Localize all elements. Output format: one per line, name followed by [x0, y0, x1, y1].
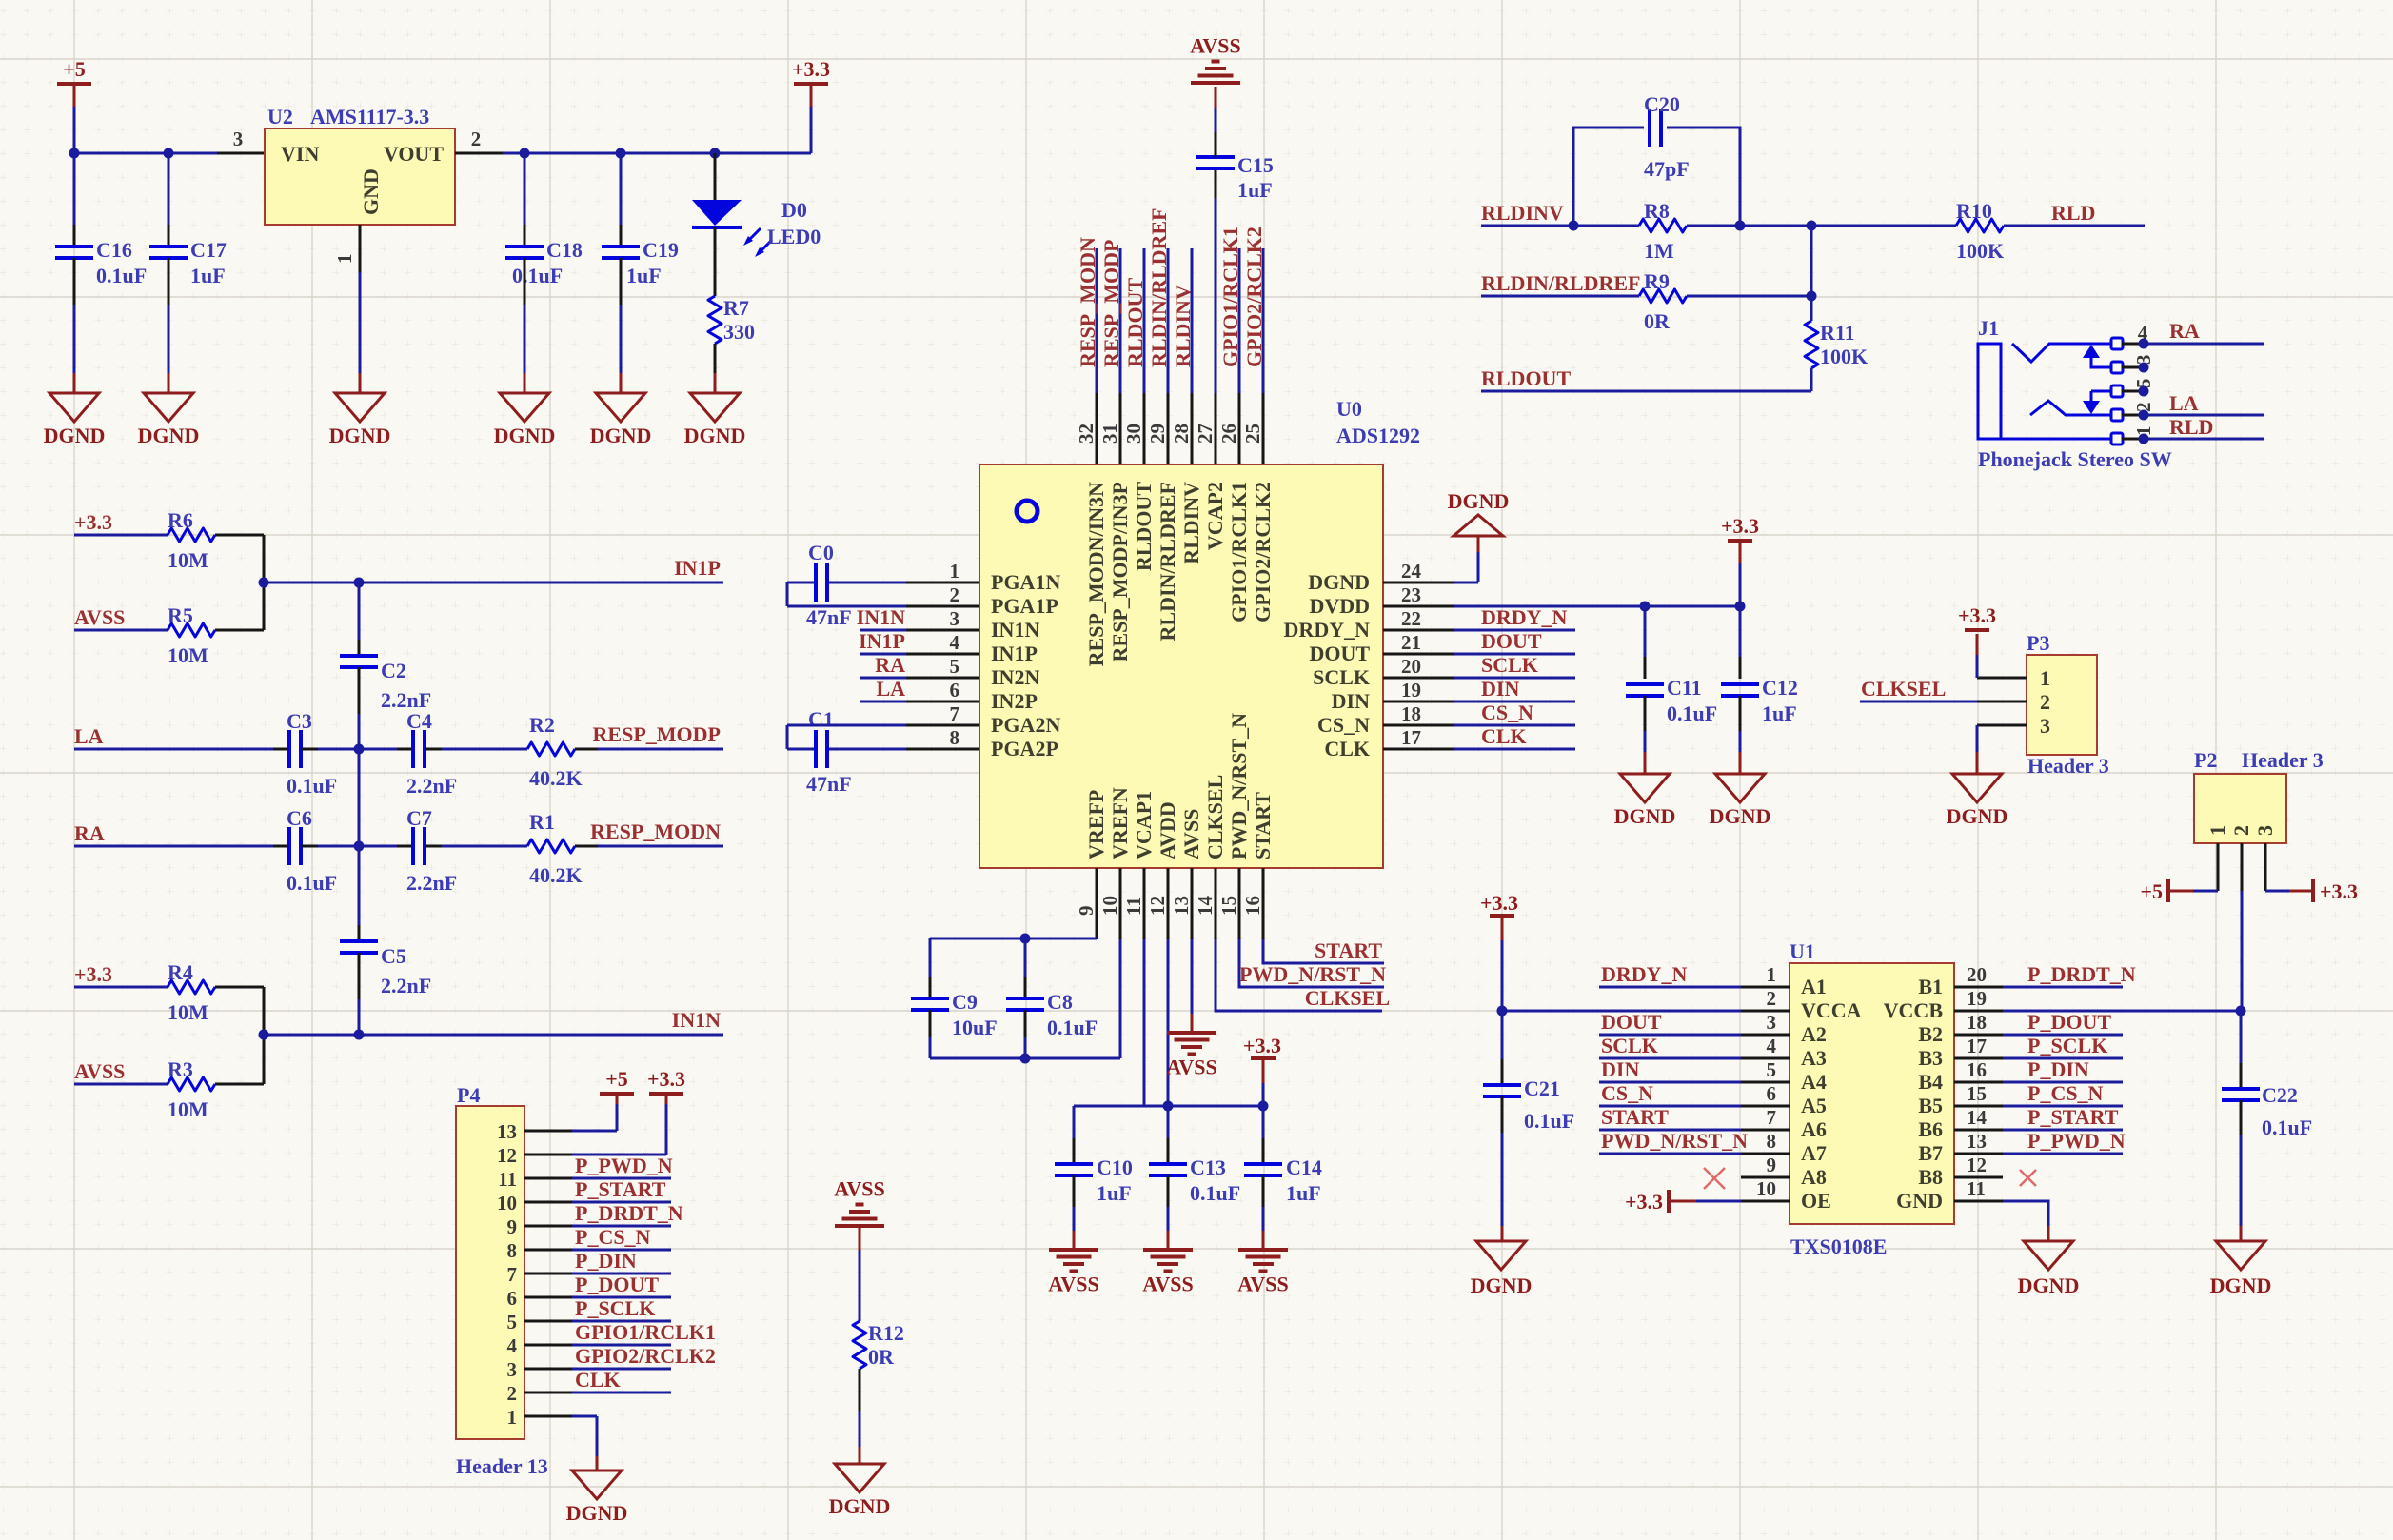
pin U0.9 VREFP [1096, 868, 1098, 939]
pin C4 [397, 748, 413, 751]
wire [1263, 939, 1384, 963]
wire [929, 938, 932, 977]
wire [714, 373, 717, 393]
svg-text:10: 10 [1098, 896, 1121, 916]
wire [1810, 368, 1813, 391]
junction [354, 841, 365, 852]
svg-text:DGND: DGND [590, 424, 652, 447]
resistor R10 100K [1956, 219, 2004, 232]
wire [810, 107, 813, 153]
svg-text:0.1uF: 0.1uF [1190, 1181, 1240, 1205]
pin R5 [215, 629, 264, 632]
svg-text:1: 1 [507, 1406, 518, 1429]
svg-text:+3.3: +3.3 [1480, 891, 1518, 915]
pin U1.6 A5 [1741, 1105, 1790, 1108]
pin P4.6 [524, 1296, 572, 1299]
ground DGND [335, 393, 385, 422]
svg-text:C11: C11 [1667, 676, 1702, 700]
svg-text:RLDOUT: RLDOUT [1132, 482, 1156, 571]
pin C11 [1644, 657, 1647, 679]
junction [1163, 1101, 1174, 1112]
wire [572, 1273, 671, 1275]
capacitor C5 2.2nF [340, 939, 378, 943]
svg-text:IN2N: IN2N [991, 665, 1039, 689]
connector P3 Header 3 [2027, 655, 2097, 755]
pin C21 [1501, 1059, 1504, 1085]
svg-text:100K: 100K [1820, 345, 1868, 368]
svg-text:DGND: DGND [1471, 1273, 1533, 1297]
junction [1020, 934, 1031, 944]
wire [168, 153, 170, 225]
junction [1735, 221, 1746, 231]
svg-text:11: 11 [1967, 1177, 1986, 1200]
pin J1 [2122, 414, 2144, 417]
pin U1.1 A1 [1741, 986, 1790, 989]
pin U0.8 PGA2P [906, 748, 979, 751]
svg-text:40.2K: 40.2K [529, 863, 583, 887]
svg-text:RESP_MODN/IN3N: RESP_MODN/IN3N [1084, 482, 1108, 666]
svg-text:1: 1 [2205, 825, 2229, 836]
capacitor C6 0.1uF [287, 827, 291, 865]
svg-text:RESP_MODN: RESP_MODN [590, 819, 721, 843]
resistor R12 0R [853, 1321, 866, 1369]
wire [2144, 414, 2264, 417]
pin R3 [215, 1083, 264, 1086]
svg-text:12: 12 [1146, 896, 1169, 916]
svg-text:+3.3: +3.3 [74, 962, 112, 986]
svg-text:11: 11 [1122, 897, 1145, 916]
pin C9 [929, 1010, 932, 1037]
capacitor C22 0.1uF [2222, 1087, 2260, 1091]
pin C4 [425, 748, 442, 751]
svg-text:TXS0108E: TXS0108E [1790, 1234, 1887, 1258]
svg-text:6: 6 [950, 679, 960, 701]
pin D0 [714, 227, 717, 296]
resistor R6 10M [168, 528, 215, 542]
pin U1.10 OE [1741, 1200, 1790, 1203]
svg-text:AVSS: AVSS [1142, 1273, 1193, 1296]
connector P2 Header 3 [2194, 774, 2286, 843]
pin C16 [73, 258, 76, 305]
pin U0.3 IN1N [906, 629, 979, 632]
power +5 [2166, 879, 2170, 902]
svg-text:0.1uF: 0.1uF [287, 774, 337, 798]
wire [1454, 748, 1575, 751]
svg-text:B5: B5 [1918, 1094, 1943, 1117]
resistor R11 100K [1805, 321, 1818, 368]
wire [1976, 655, 1979, 678]
svg-text:START: START [1601, 1105, 1669, 1129]
svg-text:P_PWD_N: P_PWD_N [575, 1154, 673, 1177]
regulator U2 AMS1117-3.3 [265, 128, 455, 225]
svg-text:RESP_MODP: RESP_MODP [593, 722, 721, 746]
svg-text:C16: C16 [96, 238, 132, 262]
svg-text:SCLK: SCLK [1481, 653, 1538, 677]
pin C21 [1501, 1096, 1504, 1133]
wire [1143, 248, 1146, 393]
pin C10 [1073, 1138, 1076, 1164]
wire [829, 582, 906, 584]
svg-text:GPIO2/RCLK2: GPIO2/RCLK2 [1242, 227, 1266, 367]
svg-text:3: 3 [1767, 1011, 1777, 1034]
svg-text:AVSS: AVSS [834, 1177, 884, 1201]
svg-text:P_DRDT_N: P_DRDT_N [2027, 962, 2136, 986]
svg-text:C8: C8 [1047, 990, 1073, 1014]
pin U0.10 VREFN [1119, 868, 1122, 939]
svg-text:U0: U0 [1336, 397, 1362, 421]
ground DGND [1715, 774, 1765, 802]
capacitor C18 0.1uF [505, 245, 544, 248]
svg-text:+3.3: +3.3 [2320, 879, 2358, 903]
svg-text:2: 2 [950, 583, 960, 606]
svg-text:0.1uF: 0.1uF [512, 264, 563, 287]
svg-text:IN1N: IN1N [672, 1008, 721, 1032]
svg-text:330: 330 [723, 320, 755, 344]
svg-text:RLDOUT: RLDOUT [1481, 366, 1571, 390]
ground DGND [596, 393, 645, 422]
svg-text:CLKSEL: CLKSEL [1305, 986, 1390, 1010]
junction [1258, 1101, 1269, 1112]
ground DGND [1454, 515, 1503, 536]
svg-text:A6: A6 [1801, 1117, 1827, 1141]
wire [620, 305, 623, 373]
wire [1644, 606, 1647, 657]
pin U1.2 VCCA [1741, 1010, 1790, 1013]
svg-text:7: 7 [507, 1263, 518, 1286]
svg-text:11: 11 [498, 1168, 517, 1191]
resistor R8 1M [1639, 219, 1687, 232]
svg-text:40.2K: 40.2K [529, 766, 583, 790]
svg-text:P_DIN: P_DIN [575, 1249, 637, 1273]
svg-text:VCAP2: VCAP2 [1203, 482, 1227, 550]
pin C2 [358, 640, 361, 656]
pin U1.12 B8 [1954, 1176, 2003, 1179]
svg-text:14: 14 [1967, 1106, 1988, 1129]
svg-text:LA: LA [74, 724, 104, 748]
pin U0.17 CLK [1383, 748, 1454, 751]
wire [74, 629, 168, 632]
ground DGND [1476, 1241, 1526, 1270]
wire [859, 1250, 861, 1321]
svg-text:25: 25 [1241, 424, 1264, 444]
wire [358, 846, 361, 925]
wire [859, 1369, 861, 1411]
svg-text:1uF: 1uF [1762, 701, 1797, 725]
svg-text:OE: OE [1801, 1189, 1831, 1213]
svg-text:DIN: DIN [1332, 689, 1370, 713]
svg-text:1uF: 1uF [1237, 178, 1273, 202]
ground AVSS [1049, 1248, 1098, 1252]
IC U0 ADS1292 [979, 464, 1383, 868]
wire [1502, 1010, 1741, 1013]
power +5 [57, 82, 91, 86]
wire [263, 987, 266, 1035]
wire [524, 305, 526, 373]
svg-text:P_SCLK: P_SCLK [2027, 1034, 2107, 1057]
pin C8 [1024, 977, 1027, 998]
svg-text:DIN: DIN [1481, 677, 1519, 701]
pin U0.19 DIN [1383, 701, 1454, 703]
svg-text:2.2nF: 2.2nF [406, 871, 457, 895]
svg-text:+3.3: +3.3 [792, 57, 830, 81]
svg-text:1: 1 [2040, 666, 2050, 690]
wire [74, 534, 168, 537]
svg-text:PGA2P: PGA2P [991, 737, 1058, 760]
wire [930, 1057, 1120, 1060]
wire [1696, 1200, 1741, 1203]
svg-text:VIN: VIN [281, 142, 319, 166]
ground DGND [572, 1471, 622, 1499]
svg-text:B8: B8 [1918, 1165, 1943, 1189]
wire [358, 582, 361, 640]
pin U2.3 [217, 152, 265, 155]
pin U0.18 CS_N [1383, 724, 1454, 727]
svg-text:R10: R10 [1956, 199, 1992, 223]
svg-text:+3.3: +3.3 [1721, 514, 1759, 538]
power +5 [600, 1092, 634, 1096]
svg-text:PGA1N: PGA1N [991, 570, 1060, 594]
svg-text:2.2nF: 2.2nF [406, 774, 457, 798]
svg-text:1: 1 [950, 560, 960, 582]
ground DGND [2024, 1241, 2073, 1270]
power +3.3 [1965, 628, 1989, 632]
svg-text:DGND: DGND [2018, 1273, 2080, 1297]
svg-text:PWD_N/RST_N: PWD_N/RST_N [1227, 713, 1251, 859]
wire [1481, 390, 1811, 393]
pin C15 [1215, 168, 1217, 198]
pin U0.13 AVSS [1191, 868, 1194, 939]
pin R1 [575, 845, 598, 848]
pin U0.23 DVDD [1383, 605, 1454, 608]
pin U1.20 B1 [1954, 986, 2003, 989]
connector P4 Header 13 [456, 1106, 524, 1439]
power +3.3 [794, 82, 828, 86]
junction [354, 744, 365, 755]
wire [1860, 701, 1977, 703]
svg-text:DIN: DIN [1601, 1057, 1639, 1081]
pin C2 [358, 667, 361, 714]
pin C18 [524, 225, 526, 247]
pin U0.7 PGA2N [906, 724, 979, 727]
svg-text:5: 5 [1767, 1058, 1777, 1081]
svg-text:PGA1P: PGA1P [991, 594, 1058, 618]
resistor R3 10M [168, 1077, 215, 1091]
svg-text:3: 3 [2040, 714, 2050, 738]
svg-text:IN1N: IN1N [991, 618, 1039, 642]
svg-text:DGND: DGND [1308, 570, 1370, 594]
pin U1.9 A8 [1741, 1176, 1790, 1179]
wire [1239, 939, 1384, 987]
svg-text:P_START: P_START [2027, 1105, 2119, 1129]
svg-text:D0: D0 [781, 198, 807, 222]
resistor R5 10M [168, 623, 215, 637]
svg-text:+3.3: +3.3 [1958, 603, 1996, 627]
svg-text:A7: A7 [1801, 1141, 1827, 1165]
svg-text:GND: GND [1896, 1189, 1943, 1213]
svg-text:+5: +5 [605, 1067, 628, 1091]
svg-text:CLK: CLK [1324, 737, 1370, 760]
svg-text:DGND: DGND [1710, 804, 1771, 828]
svg-text:10M: 10M [168, 1097, 208, 1121]
wire [1599, 1105, 1741, 1108]
wire [2003, 1034, 2123, 1037]
svg-text:A3: A3 [1801, 1046, 1827, 1070]
capacitor C2 2.2nF [340, 654, 378, 658]
capacitor C12 1uF [1721, 682, 1759, 686]
svg-text:15: 15 [1217, 896, 1240, 916]
wire [860, 701, 906, 703]
pin C7 [425, 845, 442, 848]
svg-text:AVSS: AVSS [74, 1059, 125, 1083]
svg-text:RLDIN/RLDREF: RLDIN/RLDREF [1147, 208, 1171, 367]
resistor R9 0R [1639, 289, 1687, 303]
power +3.3 [1251, 1056, 1276, 1060]
svg-text:+3.3: +3.3 [1625, 1190, 1663, 1214]
svg-text:GPIO2/RCLK2: GPIO2/RCLK2 [1251, 482, 1275, 622]
wire [714, 153, 717, 200]
svg-text:19: 19 [1967, 987, 1987, 1010]
pin U0.14 CLKSEL [1215, 868, 1217, 939]
wire [263, 1035, 266, 1084]
svg-text:J1: J1 [1978, 316, 1999, 340]
pin C5 [358, 925, 361, 941]
svg-text:10: 10 [1756, 1177, 1776, 1200]
junction [2139, 434, 2149, 444]
svg-text:RLDINV: RLDINV [1179, 482, 1203, 564]
pin U1.11 GND [1954, 1200, 2003, 1203]
svg-text:+5: +5 [2140, 879, 2163, 903]
wire [1191, 939, 1194, 1014]
svg-text:DGND: DGND [684, 424, 746, 447]
pin U1.17 B3 [1954, 1057, 2003, 1060]
wire [1687, 225, 1811, 227]
svg-text:SCLK: SCLK [1601, 1034, 1658, 1057]
capacitor C19 1uF [602, 245, 640, 248]
pin P4.3 [524, 1368, 572, 1371]
wire [2003, 1105, 2123, 1108]
pin P4.1 [524, 1415, 572, 1418]
wire [572, 1249, 671, 1252]
svg-text:R8: R8 [1644, 199, 1670, 223]
pin P2.1 [2217, 843, 2220, 891]
IC U1 TXS0108E [1790, 963, 1954, 1224]
svg-text:4: 4 [507, 1334, 518, 1357]
wire [74, 845, 273, 848]
wire [2193, 890, 2218, 893]
svg-text:START: START [1315, 938, 1382, 962]
svg-text:2: 2 [1767, 987, 1777, 1010]
power +3.3 [649, 1092, 683, 1096]
pin C6 [273, 845, 289, 848]
svg-text:RA: RA [74, 821, 105, 845]
svg-text:AVSS: AVSS [74, 605, 125, 629]
wire [598, 748, 723, 751]
svg-text:1uF: 1uF [1286, 1181, 1321, 1205]
wire [74, 986, 168, 989]
wire [1599, 1081, 1741, 1084]
svg-text:DOUT: DOUT [1309, 642, 1370, 665]
junction [259, 1030, 269, 1040]
wire [1454, 629, 1575, 632]
svg-text:24: 24 [1401, 560, 1422, 582]
wire [930, 938, 1097, 940]
pin U0.21 DOUT [1383, 653, 1454, 656]
svg-text:GND: GND [359, 168, 383, 215]
ground DGND [1620, 774, 1670, 802]
svg-text:A4: A4 [1801, 1070, 1827, 1094]
svg-text:2: 2 [2040, 690, 2050, 714]
svg-text:CS_N: CS_N [1481, 701, 1533, 724]
svg-text:C22: C22 [2262, 1083, 2298, 1107]
svg-text:47nF: 47nF [806, 605, 852, 629]
svg-text:C9: C9 [952, 990, 978, 1014]
svg-text:DRDY_N: DRDY_N [1601, 962, 1688, 986]
wire [2003, 1081, 2123, 1084]
svg-text:GPIO2/RCLK2: GPIO2/RCLK2 [575, 1344, 716, 1368]
junction [2236, 1006, 2246, 1017]
wire [859, 1411, 861, 1447]
capacitor C16 0.1uF [55, 245, 93, 248]
wire [73, 86, 76, 107]
svg-text:DOUT: DOUT [1601, 1010, 1662, 1034]
svg-text:12: 12 [497, 1144, 517, 1167]
svg-text:18: 18 [1967, 1011, 1987, 1034]
svg-text:R2: R2 [529, 713, 555, 737]
pin R4 [215, 986, 264, 989]
svg-text:P2: P2 [2194, 748, 2217, 772]
pin C13 [1167, 1138, 1170, 1164]
svg-text:IN1P: IN1P [859, 629, 905, 653]
pin P4.2 [524, 1392, 572, 1394]
svg-text:B4: B4 [1918, 1070, 1943, 1094]
svg-text:+5: +5 [63, 57, 86, 81]
pin C17 [168, 225, 170, 247]
svg-text:R9: R9 [1644, 269, 1670, 293]
svg-text:DGND: DGND [329, 424, 391, 447]
pin U1.4 A3 [1741, 1057, 1790, 1060]
capacitor C4 2.2nF [411, 730, 415, 768]
svg-text:C0: C0 [808, 541, 834, 564]
pin P4.12 [524, 1154, 572, 1156]
wire [73, 305, 76, 373]
svg-text:R1: R1 [529, 810, 555, 834]
wire [1501, 1011, 1504, 1059]
pin U0.5 IN2N [906, 677, 979, 680]
pin U0.29 RLDIN/RLDREF [1167, 393, 1170, 464]
svg-text:ADS1292: ADS1292 [1336, 424, 1420, 447]
wire [572, 1296, 671, 1299]
svg-text:32: 32 [1075, 424, 1098, 444]
resistor R4 10M [168, 980, 215, 994]
svg-text:DGND: DGND [2210, 1273, 2272, 1297]
wire [572, 1320, 671, 1323]
wire [1599, 1153, 1741, 1155]
pin C5 [358, 953, 361, 999]
wire [2144, 438, 2264, 441]
svg-text:B1: B1 [1918, 975, 1943, 998]
ground AVSS [835, 1224, 884, 1228]
svg-text:10: 10 [497, 1192, 517, 1214]
wire [598, 845, 723, 848]
svg-text:10M: 10M [168, 1000, 208, 1024]
wire [503, 152, 811, 155]
wire [787, 748, 814, 751]
wire [1454, 605, 1740, 608]
pin U0.1 PGA1N [906, 582, 979, 584]
wire [1167, 1207, 1170, 1231]
pin U0.4 IN1P [906, 653, 979, 656]
junction [1807, 221, 1817, 231]
